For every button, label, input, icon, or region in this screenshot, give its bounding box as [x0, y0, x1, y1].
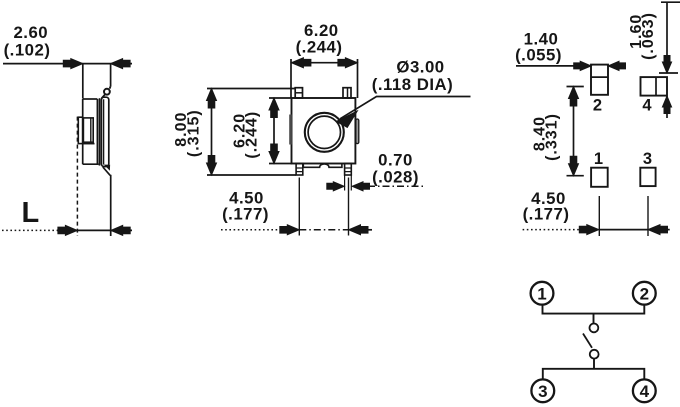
- svg-text:4: 4: [642, 97, 652, 115]
- svg-text:3: 3: [643, 150, 652, 168]
- side view button (actuator): [78, 117, 94, 143]
- svg-text:(.177): (.177): [523, 205, 570, 224]
- dimension 6.20 line with arrows: [291, 58, 358, 98]
- dimension 8.40 vertical line with arrows: [567, 87, 584, 176]
- extension line seating plane: [110, 175, 112, 236]
- schematic terminal 3 number: [538, 382, 547, 401]
- dimension 4.50 (.177) label (pad spacing): [523, 189, 570, 224]
- wire top bus: [543, 305, 645, 314]
- schematic terminal 1 number: [537, 284, 546, 303]
- dimension 8.00 vertical line with arrows: [207, 89, 297, 176]
- svg-text:2.60: 2.60: [13, 23, 48, 42]
- dimension 2.60 (.102) label (side view height): [4, 23, 51, 60]
- dimension 6.20 (.244) label (top view width): [296, 21, 343, 57]
- dimension 0.70 (.028) label (lead width): [372, 151, 419, 187]
- schematic terminal circle 3: [531, 379, 554, 402]
- top view lead pin bottom-right: [345, 164, 352, 191]
- wire from switch to bottom bus: [593, 359, 595, 369]
- svg-text:1: 1: [594, 150, 603, 168]
- pad 1 number: [594, 150, 603, 168]
- dimension 8.40 (.331) rotated label (pad pitch): [532, 113, 561, 161]
- svg-text:(.028): (.028): [372, 168, 419, 187]
- svg-text:(.244): (.244): [296, 38, 343, 57]
- top view lead pin top-left: [295, 88, 302, 98]
- dimension 4.50 (.177) label (lead spacing, top view): [222, 189, 269, 224]
- dimension 1.60 (.063) rotated label (pad height): [628, 12, 657, 60]
- dimension 8.00 (.315) rotated label: [173, 109, 203, 157]
- dimension 1.60 vertical line with arrows: [659, 2, 680, 118]
- dimension 1.40 (.055) label (pad width): [515, 29, 562, 64]
- svg-text:2: 2: [593, 97, 602, 115]
- dimension 4.50 line with arrows: [523, 196, 670, 236]
- svg-text:Ø3.00: Ø3.00: [396, 58, 444, 77]
- side view top lead hook: [102, 86, 111, 98]
- svg-text:2: 2: [640, 284, 649, 303]
- svg-text:3: 3: [538, 382, 547, 401]
- pad 2 (land pattern): [591, 65, 608, 95]
- top view right side tab: [356, 119, 359, 144]
- side view bottom lead hook: [103, 165, 110, 175]
- dimension 1.40 arrows: [516, 61, 626, 70]
- top view left side tab: [289, 115, 292, 145]
- svg-text:(.055): (.055): [515, 46, 562, 65]
- pad 3 number: [643, 150, 652, 168]
- schematic terminal circle 4: [633, 379, 656, 402]
- dimension 6.20 (.244) rotated label (body): [232, 111, 261, 159]
- side view switch body: [83, 97, 109, 166]
- dimension L leader and arrows: [2, 225, 132, 235]
- svg-text:(.177): (.177): [222, 205, 269, 224]
- pad 4 (land pattern): [641, 77, 668, 96]
- switch contact top: [590, 324, 599, 333]
- switch arm: [583, 334, 592, 348]
- pad 4 number: [642, 97, 652, 115]
- dashed centerline from button tip: [76, 117, 78, 236]
- svg-text:(.315): (.315): [186, 109, 203, 157]
- top view center button circle: [305, 113, 344, 152]
- wire bottom bus: [543, 369, 645, 380]
- pad 2 number: [593, 97, 602, 115]
- label diameter 3.00 (.118 DIA): [372, 58, 453, 95]
- svg-text:(.102): (.102): [4, 41, 51, 60]
- schematic terminal circle 2: [633, 282, 656, 305]
- top view lead pin bottom-left: [296, 164, 303, 176]
- top view lead pin top-right: [343, 88, 351, 98]
- pad 3 (land pattern): [640, 168, 655, 186]
- label L (lead length): [22, 197, 40, 229]
- dimension 6.20 vertical line with arrows: [269, 98, 292, 164]
- top view bottom contour notches: [303, 164, 342, 168]
- pad 1 (land pattern): [591, 168, 608, 187]
- dimension 4.50 line with arrows: [221, 178, 372, 236]
- dimension 0.70 arrows: [327, 182, 426, 191]
- switch contact bottom: [590, 350, 599, 359]
- wire to switch contact: [593, 314, 595, 324]
- svg-text:(.331): (.331): [544, 113, 561, 161]
- svg-text:(.244): (.244): [244, 111, 261, 159]
- dimension 2.60 line with arrows: [3, 59, 132, 99]
- svg-text:1: 1: [537, 284, 546, 303]
- schematic terminal 4 number: [640, 382, 650, 401]
- svg-text:(.063): (.063): [640, 12, 657, 60]
- svg-text:(.118 DIA): (.118 DIA): [372, 75, 453, 94]
- svg-text:L: L: [22, 197, 40, 229]
- schematic terminal circle 1: [531, 282, 554, 305]
- top view body outline: [292, 98, 356, 164]
- schematic terminal 2 number: [640, 284, 649, 303]
- leader arrow to button circle: [336, 97, 470, 128]
- svg-text:4: 4: [640, 382, 650, 401]
